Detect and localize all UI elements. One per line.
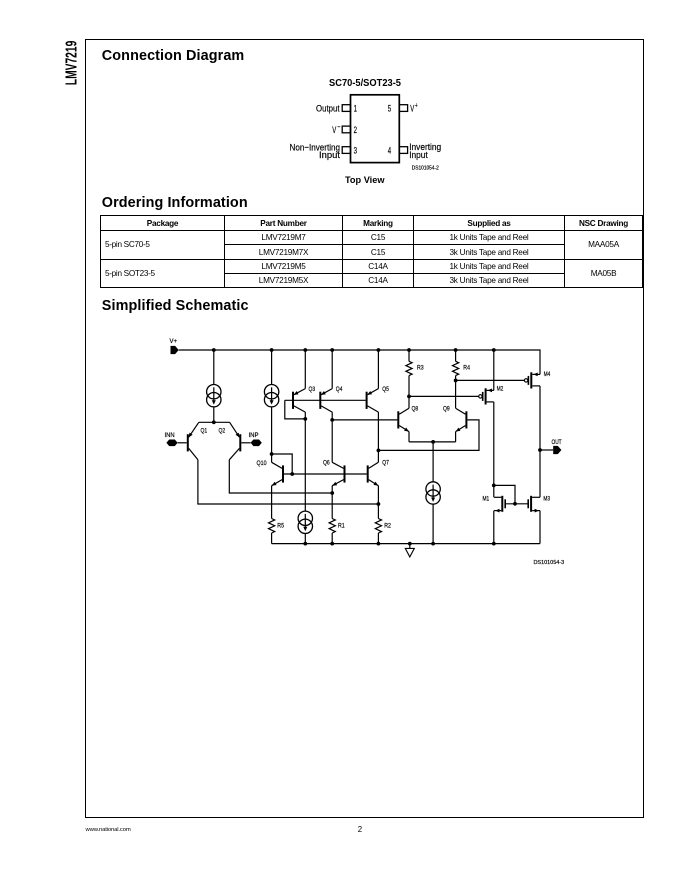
footer left www.national.com <box>86 827 131 833</box>
node Q10 base <box>290 472 294 476</box>
node rail-Q4 <box>330 348 334 352</box>
wire Q8-Q9 emitter crossbar <box>409 441 456 443</box>
wire gate row M1-M3 <box>505 503 528 505</box>
svg-text:INP: INP <box>249 432 259 439</box>
svg-text:OUT: OUT <box>552 439 562 446</box>
wire R2 top <box>377 504 379 519</box>
INN terminal <box>166 440 177 447</box>
transistor Q9 <box>456 408 467 431</box>
wire Q10 collector stub <box>271 454 273 462</box>
heading Connection Diagram <box>102 48 245 64</box>
wire R4 node to M4 gate <box>456 379 525 381</box>
svg-text:4: 4 <box>388 145 391 155</box>
svg-text:LMV7219: LMV7219 <box>63 41 80 86</box>
svg-text:Q7: Q7 <box>382 460 389 467</box>
wire top supply rail <box>179 350 540 374</box>
wire Q10 base loop <box>272 454 293 474</box>
wire bottom ground rail <box>272 543 540 545</box>
node rail-R3 <box>407 348 411 352</box>
wire R1 to ground rail <box>331 533 333 544</box>
MOSFET M4 <box>524 372 540 388</box>
wire Q8 base line <box>332 419 397 421</box>
node I3-ground rail <box>431 542 435 546</box>
wire M1 source to ground rail <box>493 511 495 544</box>
svg-text:INN: INN <box>165 432 175 439</box>
wire Q3 emitter from rail <box>304 350 306 389</box>
node rail-R4 <box>454 348 458 352</box>
transistor Q1 <box>188 422 199 460</box>
svg-text:Q2: Q2 <box>219 428 226 435</box>
node rail-I1 <box>212 348 216 352</box>
node Q3 collector-base <box>303 417 307 421</box>
node R2 top <box>377 502 381 506</box>
svg-text:Q3: Q3 <box>309 386 316 393</box>
svg-text:5: 5 <box>388 104 391 114</box>
node Q5-Q7 collectors / Q9 base net <box>377 449 381 453</box>
wire Q2 base to INP <box>241 442 250 444</box>
node ground symbol <box>408 542 412 546</box>
svg-text:M2: M2 <box>497 386 504 393</box>
wire R5 to ground rail <box>271 533 273 544</box>
node emitters to I3 <box>431 440 435 444</box>
svg-text:DS101054-2: DS101054-2 <box>412 165 439 171</box>
pin 3 box <box>342 147 350 154</box>
MOSFET M1 <box>494 496 505 513</box>
wire R2 to ground rail <box>377 533 379 544</box>
svg-text:Output: Output <box>316 104 340 115</box>
transistor Q10 <box>272 462 283 485</box>
node R1-ground rail <box>330 542 334 546</box>
transistor Q3 <box>293 389 305 413</box>
MOSFET M3 <box>528 496 540 513</box>
wire R3 to Q8 collector node <box>408 376 410 397</box>
wire R4 from rail <box>455 350 457 361</box>
current source I1 <box>207 385 221 407</box>
transistor Q6 <box>332 462 344 485</box>
ordering information table <box>100 215 643 287</box>
wire common base of Q3 Q4 Q5 <box>285 399 366 401</box>
node OUT <box>538 448 542 452</box>
wire Q4 collector to Q6 collector <box>331 412 333 462</box>
svg-text:V: V <box>332 125 336 136</box>
page border frame <box>85 39 644 819</box>
wire Q9 emitter down <box>455 432 457 442</box>
current source I3 <box>426 482 440 504</box>
resistor R1 <box>329 519 335 534</box>
svg-text:SC70-5/SOT23-5: SC70-5/SOT23-5 <box>329 78 401 89</box>
heading Ordering Information <box>102 195 248 211</box>
svg-text:Input: Input <box>319 150 340 161</box>
wire Q3 base-collector loop <box>285 400 306 419</box>
svg-text:Q9: Q9 <box>443 405 450 412</box>
wire Q3 collector down to I4 <box>304 412 306 511</box>
wire Q2 collector to R1 node <box>229 460 332 493</box>
wire Q10 emitter to R5 <box>271 486 273 519</box>
node I4-ground rail <box>303 542 307 546</box>
wire I4 to ground rail <box>304 534 306 544</box>
transistor Q2 <box>229 422 240 460</box>
svg-text:V+: V+ <box>170 338 178 345</box>
wire M1 drain from node <box>493 485 495 497</box>
wire Q8 emitter down <box>408 432 410 442</box>
svg-text:Q10: Q10 <box>257 460 268 467</box>
wire M1 gate loop <box>494 485 515 503</box>
svg-text:1: 1 <box>354 104 357 114</box>
wire Q7 collector up <box>377 450 379 462</box>
heading Simplified Schematic <box>102 298 249 314</box>
wire I3 from emitter node <box>432 442 434 482</box>
node M2-M1 drains <box>492 484 496 488</box>
wire R3 from rail <box>408 350 410 361</box>
node rail-I2 <box>270 348 274 352</box>
wire to OUT terminal <box>540 449 553 451</box>
wire current source I1 from rail <box>213 350 215 385</box>
wire I2 to Q10 collector <box>271 407 273 454</box>
resistor R5 <box>269 519 275 534</box>
node R3 bottom / M2 gate <box>407 395 411 399</box>
INP terminal <box>251 440 262 447</box>
wire R3 node to M2 gate <box>409 395 479 397</box>
node input pair tail <box>212 420 216 424</box>
node M1-ground rail <box>492 542 496 546</box>
wire Q8 collector up <box>408 396 410 408</box>
pin 5 box <box>399 105 407 112</box>
wire INN to Q1 base <box>178 442 187 444</box>
transistor Q7 <box>368 462 379 485</box>
node R2-ground rail <box>377 542 381 546</box>
svg-text:Top View: Top View <box>345 175 385 185</box>
svg-text:3: 3 <box>354 145 357 155</box>
transistor Q5 <box>367 389 379 413</box>
wire Q6 emitter to R1 <box>331 486 333 493</box>
wire I3 to ground rail <box>432 504 434 543</box>
package body <box>351 95 400 163</box>
wire Q5 collector down <box>377 412 379 450</box>
wire current source I2 from rail <box>271 350 273 385</box>
resistor R2 <box>375 519 381 534</box>
current source I4 <box>298 511 312 533</box>
wire M3 source to ground rail <box>539 511 541 544</box>
current source I2 <box>264 385 278 407</box>
node rail-M2 <box>492 348 496 352</box>
wire Q1 collector to R2 node <box>198 460 379 504</box>
svg-text:DS101054-3: DS101054-3 <box>534 560 565 566</box>
wire Q4 emitter from rail <box>331 350 333 389</box>
wire M4 drain to OUT and M3 <box>539 386 541 497</box>
svg-text:R2: R2 <box>384 522 391 529</box>
svg-text:R3: R3 <box>417 365 424 372</box>
pin 2 box <box>342 126 350 133</box>
svg-text:Q8: Q8 <box>412 405 419 412</box>
wire Q5 emitter from rail <box>377 350 379 389</box>
pin 1 box <box>342 105 350 112</box>
V+ terminal <box>171 346 179 354</box>
svg-text:−: − <box>337 124 340 131</box>
MOSFET M2 <box>479 388 494 404</box>
resistor R4 <box>453 361 459 375</box>
wire Q7 emitter to R2 <box>377 486 379 504</box>
svg-text:Q5: Q5 <box>382 386 389 393</box>
svg-text:M4: M4 <box>544 371 551 378</box>
wire M2 drain down to M1 <box>493 402 495 486</box>
footer page number 2 <box>358 825 362 834</box>
svg-text:R1: R1 <box>338 522 345 529</box>
transistor Q8 <box>398 408 409 431</box>
node R1 top <box>330 491 334 495</box>
svg-text:2: 2 <box>354 125 357 135</box>
resistor R3 <box>406 361 412 375</box>
node M1-M3 gates <box>513 502 517 506</box>
svg-text:+: + <box>415 103 418 110</box>
node R4 bottom / M4 gate <box>454 379 458 383</box>
node Q4 collector / Q8 base <box>330 418 334 422</box>
svg-text:Input: Input <box>409 150 428 161</box>
svg-text:Q4: Q4 <box>336 386 343 393</box>
wire Q9 base loop to Q7 collector <box>378 420 479 451</box>
node rail-Q3 <box>303 348 307 352</box>
OUT terminal <box>553 446 561 454</box>
svg-text:R4: R4 <box>463 365 470 372</box>
svg-text:M3: M3 <box>543 496 550 503</box>
node rail-Q5 <box>377 348 381 352</box>
wire R1 top <box>331 493 333 519</box>
ground symbol <box>405 544 414 557</box>
svg-text:Q6: Q6 <box>323 460 330 467</box>
svg-text:M1: M1 <box>483 496 490 503</box>
svg-text:Q1: Q1 <box>201 428 208 435</box>
wire M2 source to rail <box>493 350 495 390</box>
wire R4 to node <box>455 376 457 381</box>
wire I1 to input pair tail <box>213 407 215 422</box>
svg-text:R5: R5 <box>277 522 284 529</box>
pin 4 box <box>399 147 407 154</box>
transistor Q4 <box>320 389 332 413</box>
node Q10 collector <box>270 452 274 456</box>
wire tail crossbar <box>199 421 230 423</box>
wire R4 node to Q9 collector <box>455 380 457 408</box>
wire common base Q10 Q6 Q7 <box>284 473 367 475</box>
